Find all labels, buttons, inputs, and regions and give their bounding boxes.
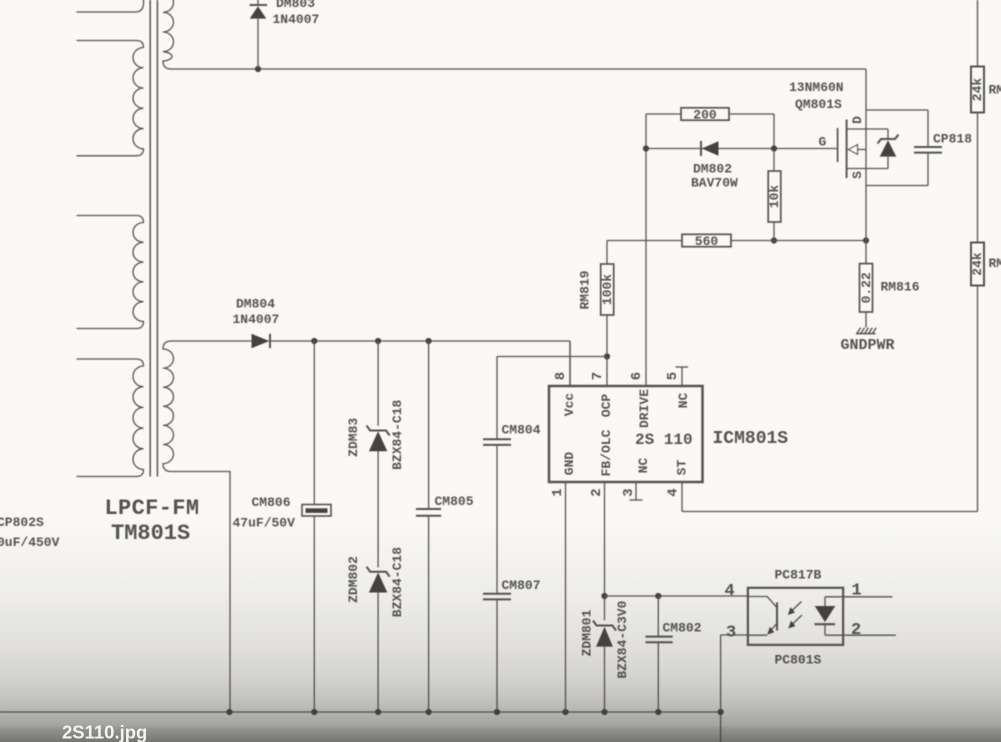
pin number 5 [665, 372, 681, 380]
diode DM804 1N4007 [252, 334, 271, 348]
wire RM819 top lead [606, 241, 608, 265]
wire OCP row [497, 356, 607, 358]
pin number 1 [550, 488, 566, 496]
label CM807 [502, 578, 541, 593]
resistor RM819 100k [600, 264, 615, 315]
wire opto pin 3 corner [721, 635, 748, 742]
pin 2 FB/OLC lead [604, 482, 606, 620]
label DM803 [276, 0, 315, 11]
label BZX84-C3V0 (ZDM801) [615, 600, 630, 678]
wire RM819 bottom lead [606, 315, 608, 357]
resistor 560 [682, 234, 731, 249]
node junction DM803/top rail [255, 66, 261, 72]
op-amp U1 controller IC ICM801S box [549, 386, 703, 482]
wire Vcc rail [270, 341, 570, 386]
svg-text:2S110.jpg: 2S110.jpg [62, 722, 147, 742]
wire ST to right column [682, 511, 978, 513]
node bus junction CM805 [426, 709, 432, 715]
pin number 3 [621, 488, 637, 496]
zener diode ZDM802 BZX84-C18 [367, 567, 390, 593]
label 13NM60N [789, 80, 844, 95]
label G (gate pin) [819, 135, 827, 150]
transformer secondary winding (bottom section) and return wire to ground bus [163, 341, 251, 712]
label 2S 110 (IC marking) [635, 431, 693, 449]
resistor RM8xx 24k (upper right) [970, 67, 985, 113]
label PC801S [775, 653, 822, 668]
diode DM803 1N4007 [250, 0, 268, 69]
pin label GND [562, 452, 577, 476]
node junction CM802 top [655, 593, 661, 599]
pin 4 ST lead [681, 482, 683, 512]
node bus junction transformer return [226, 709, 232, 715]
transformer TM801S primary winding section A (top, partially offscreen) [77, 0, 144, 12]
wire 560 rail [607, 240, 866, 242]
capacitor CM806 47uF/50V (electrolytic) [302, 341, 331, 712]
pin number 4 [666, 488, 682, 496]
pin label Vcc [562, 393, 577, 417]
transformer label TM801S [111, 521, 190, 546]
label RM819 [578, 270, 593, 309]
pin number 1 (opto) [852, 582, 862, 601]
label D (drain pin) [850, 116, 865, 124]
node junction CM805/Vcc rail [426, 338, 432, 344]
pin label NC (pin3) [636, 458, 651, 474]
node bus junction ZDM801 [601, 709, 607, 715]
label RM (cut) lower [989, 256, 1001, 271]
wire right column down to ST wire [977, 286, 979, 512]
resistor 200 (gate) [646, 108, 774, 123]
node junction 10k bottom / 560 rail [771, 237, 777, 243]
label PC817B [775, 568, 822, 583]
label CP818 [933, 132, 972, 147]
label RM (cut) upper [989, 83, 1001, 98]
wire OCP branch down [496, 357, 498, 440]
node bus junction opto pin3 [718, 709, 724, 715]
node junction DM802 right / 10k top [771, 145, 777, 151]
wire ground bus [0, 711, 721, 713]
pin label NC (pin5) [676, 393, 691, 409]
optocoupler light arrows [788, 602, 802, 629]
node junction 560/source [863, 237, 869, 243]
capacitor CM807 [483, 594, 511, 712]
node bus junction CM802 [655, 709, 661, 715]
pin number 6 [629, 372, 645, 380]
pin number 2 [589, 488, 605, 496]
transformer TM801S primary winding section B [77, 41, 144, 156]
pin 8 Vcc lead [569, 341, 571, 386]
node bus junction GND pin [562, 709, 568, 715]
pin label OCP [599, 394, 614, 418]
wire top rail (secondary top to MOSFET drain) [170, 68, 866, 70]
label RM816 [881, 280, 920, 295]
optocoupler PC801S box [748, 588, 843, 645]
transformer label LPCF-FM [105, 496, 200, 521]
pin label DRIVE [637, 389, 652, 428]
pin number 3 (opto) [726, 624, 736, 643]
label 1N4007 (DM803) [273, 12, 320, 27]
node bus junction zener column [375, 709, 381, 715]
pin number 2 (opto) [851, 621, 861, 640]
label DM804 [236, 297, 275, 312]
transformer core line 2 [156, 0, 158, 477]
wire opto pin 1 [843, 596, 892, 598]
label BZX84-C18 (ZDM802) [390, 547, 405, 617]
optocoupler LED [815, 597, 844, 635]
node junction DM802 left [643, 145, 649, 151]
pin 5 NC stub [676, 367, 689, 386]
pin label ST [675, 460, 690, 476]
transformer TM801S primary winding section C [77, 216, 144, 329]
capacitor CP818 snubber loop [866, 110, 942, 186]
capacitor CM804 [483, 439, 511, 594]
wire right column middle [977, 113, 979, 243]
node junction FB/opto wire [601, 593, 607, 599]
label ICM801S [713, 429, 789, 449]
wire gate line [646, 148, 838, 150]
wire zener column [377, 341, 379, 712]
label BZX84-C18 (ZDM803) [390, 399, 405, 469]
label CM806 [252, 495, 291, 510]
capacitor CP802S label (cut off at left edge) [0, 515, 44, 530]
transistor QM801S MOSFET symbol [838, 69, 888, 241]
pin 1 GND lead [565, 482, 567, 712]
label CM805 [435, 494, 474, 509]
node junction RM819/OCP [604, 353, 610, 359]
pin number 4 (opto) [725, 582, 735, 601]
capacitor CM805 [416, 341, 441, 712]
label GNDPWR [841, 337, 895, 354]
node junction zener column/Vcc rail [375, 338, 381, 344]
label QM801S [795, 97, 842, 112]
label ZDM802 [346, 556, 361, 603]
body zener diode of QM801S [878, 129, 899, 169]
label 47uF/50V (CM806) [233, 516, 296, 531]
resistor RM816 0.22 (source sense) [859, 241, 874, 328]
optocoupler phototransistor [748, 597, 777, 636]
label ZDM801 [580, 609, 595, 656]
wire right column top [977, 0, 979, 67]
label BAV70W (DM802) [691, 176, 738, 191]
pin 7 OCP lead [606, 357, 608, 387]
pin 3 NC stub [630, 482, 643, 500]
resistor 10k (gate-source) [767, 149, 782, 241]
node junction CM806/Vcc rail [311, 338, 317, 344]
transformer core line 1 [149, 0, 151, 477]
label S (source pin) [850, 171, 865, 179]
wire 200-right corner down to gate line [773, 114, 775, 149]
pin number 8 [553, 372, 569, 380]
wire FB to optocoupler pin 4 [605, 595, 748, 597]
ground GNDPWR symbol [856, 328, 876, 334]
pin number 7 [590, 372, 606, 380]
wire vertical x=646 (gate network to DRIVE pin 6) [645, 114, 647, 386]
zener diode ZDM803 BZX84-C18 [367, 426, 390, 452]
zener diode ZDM801 BZX84-C3V0 [593, 621, 616, 713]
label 1N4007 (DM804) [233, 312, 280, 327]
transformer TM801S primary winding section D [77, 359, 144, 477]
transformer secondary winding (top section) [163, 0, 174, 69]
wire opto pin 2 [843, 634, 896, 636]
pin label FB/OLC [599, 429, 614, 476]
label CM802 [663, 621, 702, 636]
label ZDM83 [346, 418, 361, 457]
node bus junction CM806 [311, 709, 317, 715]
label DM802 [693, 162, 732, 177]
node bus junction CM807 [494, 709, 500, 715]
resistor RM8xx 24k (lower right) [970, 243, 985, 286]
capacitor CM802 [646, 596, 673, 712]
label CM804 [502, 423, 541, 438]
capacitor CP802S value 0uF/450V (cut off) [0, 535, 60, 550]
diode DM802 BAV70W [701, 141, 719, 156]
